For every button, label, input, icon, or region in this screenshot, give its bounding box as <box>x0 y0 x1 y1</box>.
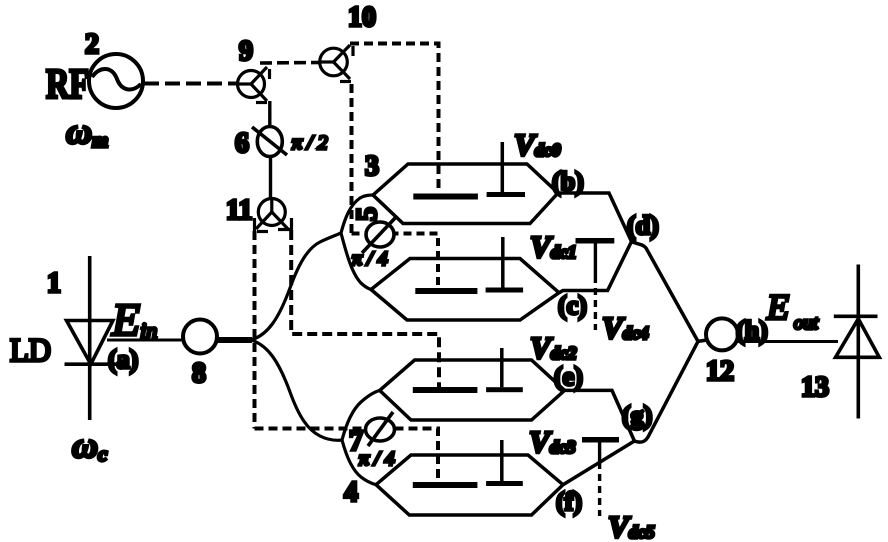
Vdc5 electrode bar <box>582 437 619 443</box>
svg-text:11: 11 <box>226 195 252 226</box>
wire coupler 12 to photodiode <box>738 340 838 343</box>
svg-text:RF: RF <box>46 62 89 108</box>
waveguide b to junction d <box>558 193 632 242</box>
wire splitter10 bottom down to phase shifter 5 row (dashed) <box>350 84 354 234</box>
phase shifter 6 (pi/2) <box>252 127 287 157</box>
MZM Vdc2 outline <box>380 360 565 420</box>
svg-text:(d): (d) <box>627 211 659 240</box>
Vdc4 electrode bar <box>576 238 615 244</box>
splitter 10 <box>319 45 353 82</box>
wire phase shifter 6 to splitter 11 <box>269 156 272 199</box>
coupler 12 <box>706 318 738 350</box>
wire junction to coupler 12 <box>698 340 707 341</box>
splitter 11 <box>255 198 292 232</box>
svg-text:Ein: Ein <box>111 294 157 345</box>
MZM Vdc2 RF electrode bar <box>413 387 478 393</box>
wire shifter7 row: dashed from x254.5 through shifter7 to MZM-f electrode <box>255 429 439 483</box>
MZM 4 outline <box>376 455 563 515</box>
svg-text:Vdc4: Vdc4 <box>602 310 649 345</box>
photodiode 13 <box>834 265 880 419</box>
svg-text:Vdc2: Vdc2 <box>530 330 577 365</box>
svg-text:Vdc1: Vdc1 <box>530 229 577 264</box>
svg-text:Vdc5: Vdc5 <box>608 509 655 542</box>
svg-text:8: 8 <box>192 358 206 389</box>
svg-text:Vdc0: Vdc0 <box>514 127 561 162</box>
svg-text:ωm: ωm <box>66 111 108 152</box>
svg-text:ωc: ωc <box>72 425 108 466</box>
svg-text:(f): (f) <box>556 487 582 516</box>
svg-text:(g): (g) <box>622 401 652 430</box>
wire RF to splitter 9 (dashed) <box>144 82 238 86</box>
optical fork 1 upper branch <box>251 233 341 340</box>
svg-text:(e): (e) <box>554 362 583 391</box>
svg-text:(a): (a) <box>108 345 138 374</box>
wire shifter5 row: dashed from x351.5 through shifter5 to MZM-c electrode <box>352 234 439 289</box>
MZM Vdc2 DC electrode bar <box>486 387 523 392</box>
MZM Vdc1 RF electrode bar <box>415 288 477 294</box>
MZM 3 outline <box>373 164 558 224</box>
svg-text:10: 10 <box>348 2 376 33</box>
svg-text:6: 6 <box>235 128 249 159</box>
wire coupler 8 to fork (thick) <box>217 337 252 343</box>
wire splitter9 to splitter10 (dashed) <box>260 61 320 65</box>
RF oscillator 2 <box>89 54 143 108</box>
wire LD to coupler 8 <box>107 339 184 342</box>
svg-text:5: 5 <box>352 207 383 221</box>
MZM Vdc1 DC electrode bar <box>486 288 523 293</box>
optical fork 2a lower branch to MZM Vdc1 <box>341 233 371 290</box>
MZM Vdc1 DC bias stem <box>501 237 505 288</box>
svg-text:(c): (c) <box>558 291 587 320</box>
phase shifter 5 (pi/4) <box>362 216 397 253</box>
svg-text:2: 2 <box>85 29 99 60</box>
MZM Vdc2 DC bias stem <box>500 348 504 387</box>
svg-text:9: 9 <box>239 36 253 67</box>
waveguide f to junction g <box>563 441 634 485</box>
MZM3 DC bias stem Vdc0 <box>501 142 505 192</box>
svg-text:12: 12 <box>706 356 734 387</box>
svg-text:4: 4 <box>344 477 358 508</box>
Vdc5 stem <box>598 442 601 462</box>
coupler 8 <box>183 320 217 354</box>
svg-text:1: 1 <box>47 268 61 299</box>
svg-text:Vdc3: Vdc3 <box>529 424 576 459</box>
waveguide d to output junction <box>632 242 699 342</box>
MZM4 DC bias stem <box>500 440 504 481</box>
svg-text:π / 4: π / 4 <box>359 448 395 470</box>
svg-text:LD: LD <box>10 333 51 369</box>
svg-text:π / 2: π / 2 <box>292 132 328 154</box>
Vdc4 stem <box>594 243 597 276</box>
wire splitter10 top to MZM3 RF electrode (dashed L) <box>350 44 439 193</box>
MZM4 DC electrode bar <box>486 481 523 486</box>
MZM Vdc1 outline <box>371 259 559 321</box>
svg-text:E out: E out <box>766 287 819 334</box>
optical fork 2a upper branch to MZM3 <box>341 195 373 233</box>
optical fork 2b upper branch to MZM Vdc2 <box>342 390 380 440</box>
waveguide g to output junction <box>634 341 698 442</box>
wire splitter9 down to phase shifter 6 <box>268 101 271 127</box>
splitter 9 <box>237 67 270 103</box>
wire splitter11 left output down (dashed) <box>253 231 257 429</box>
phase shifter 7 (pi/4) <box>366 412 395 446</box>
optical fork 1 lower branch <box>251 340 342 440</box>
MZM3 DC electrode bar <box>487 192 525 197</box>
svg-text:3: 3 <box>365 151 379 182</box>
waveguide c to junction d <box>559 242 632 293</box>
wire splitter11 right output down then right to MZM-e electrode (dashed) <box>291 230 439 388</box>
MZM3 RF electrode bar <box>413 194 478 200</box>
optical fork 2b lower branch to MZM 4 <box>342 440 376 485</box>
label 5 (rotated) <box>352 207 383 221</box>
svg-text:13: 13 <box>801 372 829 403</box>
laser diode LD (1) <box>65 256 117 420</box>
MZM4 RF electrode bar <box>413 482 478 488</box>
waveguide e to junction g <box>565 390 635 441</box>
svg-text:π / 4: π / 4 <box>352 248 388 270</box>
